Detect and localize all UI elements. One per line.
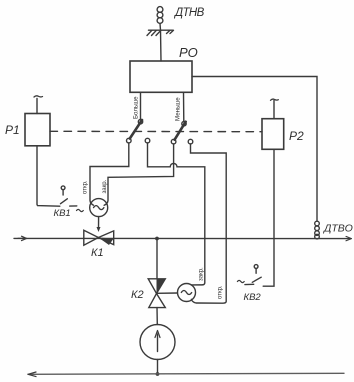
- valve К2: [148, 279, 165, 308]
- branch pipe down to К2: [156, 239, 158, 279]
- svg-text:КВ1: КВ1: [54, 208, 71, 219]
- svg-text:Больше: Больше: [133, 96, 140, 119]
- svg-text:закр.: закр.: [102, 179, 108, 193]
- motor M2 (К2 actuator): [178, 284, 196, 302]
- limit switch КВ1: [61, 186, 77, 206]
- svg-text:Р1: Р1: [5, 123, 20, 137]
- sensor ДТВО (return water temperature sensor): [315, 221, 320, 239]
- svg-text:откр.: откр.: [83, 180, 89, 194]
- switch S1 pivot: [138, 120, 142, 124]
- switch S2 contact a: [171, 139, 176, 144]
- relay Р2: [262, 99, 284, 149]
- wire S2 contact b to M2 (открыть): [191, 144, 227, 303]
- supply pipe: [14, 237, 350, 239]
- junction return pipe: [156, 372, 160, 376]
- svg-text:КВ2: КВ2: [244, 292, 262, 303]
- wire Р2 to КВ2: [263, 149, 274, 286]
- dashed mechanical link Р1 - Р2: [50, 130, 262, 132]
- wire S2 contact a to M1 (закрыть): [104, 144, 173, 205]
- regulator РО: [130, 61, 192, 92]
- supply flow arrow right: [346, 236, 352, 240]
- wire РО output 1 (stem to switch S1): [140, 92, 142, 119]
- return pipe: [28, 373, 344, 374]
- svg-text:ДТВО: ДТВО: [323, 223, 353, 235]
- tilde after КВ1: [77, 209, 84, 211]
- supply flow arrow left: [18, 236, 27, 240]
- tilde before КВ2: [237, 280, 244, 282]
- switch S1 contact a: [127, 138, 132, 143]
- svg-text:К1: К1: [91, 247, 104, 259]
- arrow M1 to valve К1: [97, 217, 101, 232]
- switch S2 arm: [175, 122, 186, 140]
- pump: [140, 325, 175, 360]
- switch S1 contact b: [145, 138, 150, 143]
- motor M1 (К1 actuator): [90, 199, 108, 217]
- svg-text:закр.: закр.: [198, 267, 204, 281]
- valve К1: [84, 230, 114, 245]
- switch S2 contact b: [188, 139, 193, 144]
- switch S2 pivot: [182, 122, 186, 126]
- svg-text:ДТНВ: ДТНВ: [173, 7, 205, 19]
- wire РО to ДТВО sensor: [192, 77, 317, 222]
- svg-text:Меньше: Меньше: [175, 97, 182, 121]
- wire Р1 to КВ1: [37, 146, 60, 206]
- sensor ДТНВ (outdoor air temperature sensor): [147, 7, 174, 36]
- pipe pump to return: [157, 360, 159, 375]
- switch S1 arm: [130, 120, 142, 139]
- junction supply pipe / branch: [155, 237, 159, 241]
- svg-text:К2: К2: [131, 289, 144, 301]
- link К2 to M2: [157, 292, 178, 294]
- pipe К2 to pump: [156, 308, 158, 325]
- svg-text:Р2: Р2: [289, 129, 304, 143]
- wire S1 contact b to M2 (закрыть) with hop over: [148, 143, 205, 285]
- wire ДТНВ to РО: [160, 30, 163, 61]
- svg-text:откр.: откр.: [218, 285, 224, 299]
- limit switch КВ2: [245, 265, 261, 285]
- return flow arrow (left, pointing left): [28, 372, 36, 377]
- wire РО output 2 (stem to switch S2): [183, 92, 185, 122]
- svg-text:РО: РО: [179, 45, 198, 60]
- wire S1 contact a to M1 (открыть): [90, 143, 129, 205]
- relay Р1: [25, 96, 50, 146]
